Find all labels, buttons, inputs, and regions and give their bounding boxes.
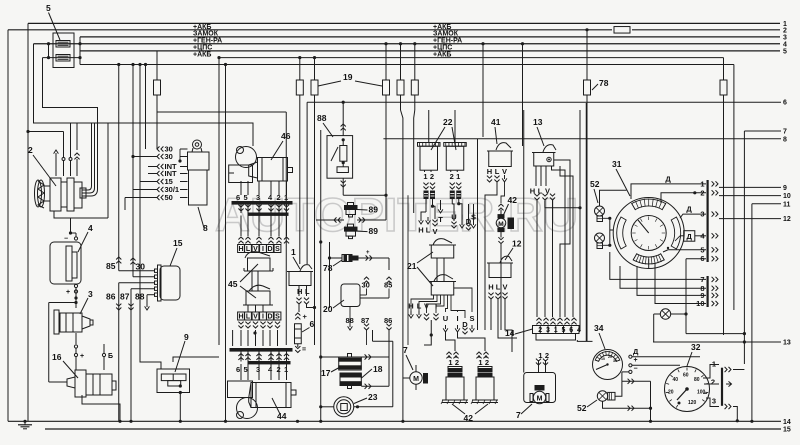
wire generator bundle: [82, 172, 98, 196]
wire battery plus: [74, 288, 77, 308]
wire drop fuse: [399, 42, 402, 80]
svg-text:86: 86: [106, 292, 116, 302]
svg-text:20: 20: [608, 355, 612, 359]
svg-text:80: 80: [694, 377, 700, 383]
svg-text:2: 2: [538, 327, 542, 334]
wire x320.75 upper: [320, 130, 322, 242]
wire x482: [482, 139, 484, 330]
svg-text:M: M: [498, 221, 503, 228]
wire x477: [477, 139, 479, 330]
svg-text:D: D: [267, 314, 272, 321]
motor 46: [229, 147, 293, 183]
svg-text:20: 20: [323, 304, 333, 314]
svg-text:5: 5: [244, 193, 248, 202]
wire relay9 out: [179, 393, 182, 423]
svg-text:6: 6: [236, 365, 240, 374]
label 42: [452, 404, 488, 423]
svg-text:H: H: [238, 246, 243, 253]
svg-text:15: 15: [783, 427, 791, 434]
label 88: [317, 113, 333, 137]
coil 42: [471, 366, 498, 404]
svg-text:1: 1: [456, 172, 460, 181]
svg-text:V: V: [502, 167, 507, 176]
switch 1 pins: [297, 286, 310, 297]
ignition terminal 30: [157, 145, 188, 154]
wire 7a: [403, 365, 416, 390]
wire x320.75: [319, 240, 322, 423]
label 5: [46, 3, 60, 40]
svg-text:1: 1: [448, 358, 452, 367]
wire ign row1 wrap: [178, 149, 181, 163]
svg-text:13: 13: [533, 117, 543, 127]
svg-text:+ЦПС: +ЦПС: [433, 45, 452, 52]
switch 12: [487, 256, 513, 277]
svg-text:M: M: [537, 395, 543, 402]
wire 87 drop: [120, 289, 155, 423]
wire bus ZAMOK line2: [8, 29, 780, 31]
gauge 34 terminals: [629, 347, 639, 374]
label 21: [407, 252, 433, 286]
wire run y57.6: [219, 57, 724, 59]
svg-text:18: 18: [373, 364, 383, 374]
wire relay3 down: [75, 333, 77, 344]
wire x219: [217, 56, 220, 345]
ignition terminal 30: [133, 152, 188, 161]
wire 21b fan: [411, 288, 472, 318]
svg-text:+АКБ: +АКБ: [193, 52, 211, 59]
resistor 18: [340, 373, 361, 389]
svg-text:30: 30: [165, 152, 173, 161]
svg-text:8: 8: [783, 136, 787, 143]
wire 52b loop: [603, 379, 653, 423]
wire bus +AKB line1: [28, 22, 780, 24]
wire switch1 L: [304, 298, 315, 308]
fuse box 5: [53, 33, 74, 68]
svg-text:3: 3: [712, 397, 716, 406]
connector 44 pins: [236, 364, 288, 380]
fuse 78b: [720, 80, 727, 95]
wire 14 to motor 7b: [539, 360, 546, 373]
motor 7b loop: [524, 373, 556, 403]
row1 arrows: [419, 206, 476, 230]
decor: [215, 188, 578, 241]
wire 13 drops: [534, 166, 555, 317]
horn 23: [334, 397, 354, 417]
wire row1 feeds: [421, 200, 474, 223]
connector 14 chevrons: [536, 318, 576, 324]
wire drop fuse: [384, 42, 387, 80]
speedometer 31: [613, 198, 684, 269]
svg-text:Д: Д: [665, 175, 671, 184]
wire x133: [131, 63, 134, 273]
relay 22: [418, 143, 441, 182]
relay 20 pins top: [360, 270, 392, 298]
speedo wires lower: [610, 252, 706, 304]
fuse 19: [383, 80, 390, 95]
wire line7: [744, 129, 787, 136]
wire lighter bottom: [295, 344, 306, 354]
label 14: [505, 328, 533, 338]
svg-text:2: 2: [455, 358, 459, 367]
wire x744: [743, 131, 746, 364]
svg-text:10: 10: [783, 193, 791, 200]
row HLVIDS lower: [238, 312, 281, 321]
speedo connector lower: [696, 275, 718, 308]
label 89a: [358, 205, 379, 215]
lamp 52a bulb: [595, 233, 605, 249]
label 18: [362, 364, 383, 378]
svg-text:2: 2: [783, 27, 787, 34]
wire line11: [752, 201, 791, 208]
wire relay15 86: [118, 282, 120, 284]
wire fuse5 lower: [43, 44, 82, 59]
ignition terminal 15: [140, 177, 188, 186]
wire drop x723 fuse78b: [723, 58, 725, 335]
svg-text:L: L: [246, 314, 251, 321]
svg-text:T: T: [438, 215, 443, 224]
bus labels right: [433, 24, 462, 59]
svg-text:16: 16: [52, 352, 62, 362]
svg-text:2: 2: [485, 358, 489, 367]
svg-text:78: 78: [599, 78, 609, 88]
switch 13: [532, 145, 556, 166]
svg-text:V: V: [253, 314, 258, 321]
battery 4: [50, 236, 81, 297]
svg-text:−: −: [64, 236, 68, 243]
svg-text:4: 4: [783, 41, 787, 48]
label 32: [687, 342, 701, 366]
svg-text:L: L: [495, 167, 500, 176]
svg-text:2: 2: [277, 193, 281, 202]
label 41: [491, 117, 501, 144]
label 78 mid: [323, 260, 342, 273]
switch 13 pins: [530, 187, 550, 196]
svg-text:5: 5: [783, 48, 787, 55]
wire run y64.5: [80, 64, 734, 66]
coil 42 pins: [476, 352, 489, 367]
row1 HLV: [418, 226, 437, 237]
switch 12 pins: [488, 283, 507, 300]
svg-text:60: 60: [683, 373, 689, 379]
connector 14: [533, 326, 581, 341]
label 12: [505, 239, 522, 261]
svg-text:S: S: [275, 246, 280, 253]
wire drop x157: [156, 51, 158, 149]
svg-text:I: I: [262, 314, 264, 321]
relay 22 chevrons: [423, 183, 435, 199]
svg-text:6: 6: [310, 319, 315, 329]
svg-text:120: 120: [688, 400, 697, 406]
speedo connector upper: [700, 179, 718, 263]
wire drop fuse: [298, 56, 301, 80]
svg-text:+: +: [366, 250, 370, 256]
wire drop x522.5: [521, 42, 524, 146]
motor 7b: [530, 386, 549, 404]
svg-text:9: 9: [783, 185, 787, 192]
label 1: [291, 247, 300, 269]
ignition terminal INT: [148, 169, 188, 178]
wire 34 left: [592, 356, 594, 358]
wire 23 circuit: [319, 330, 393, 408]
svg-text:12: 12: [783, 216, 791, 223]
svg-text:14: 14: [783, 419, 791, 426]
row1 TUIDS: [438, 213, 476, 227]
row2 arrows2: [443, 325, 474, 334]
svg-text:44: 44: [277, 411, 287, 421]
wire x314.5: [313, 95, 316, 345]
lighter 6 plus: [295, 312, 307, 321]
label 44: [272, 398, 287, 421]
row HLVIDS upper chevrons: [238, 237, 289, 243]
wire relay22 drops: [426, 199, 460, 213]
wire 45-44 bundle: [241, 330, 278, 346]
svg-text:30: 30: [613, 359, 617, 363]
wire 46-45 bundle: [241, 216, 287, 237]
glow plug 89a: [345, 203, 358, 218]
switch 1: [287, 265, 313, 286]
wire bus +AKB line5: [80, 50, 780, 52]
wire plugs row: [316, 217, 386, 222]
terminal numbers 1-5: [783, 21, 787, 56]
svg-text:13: 13: [783, 340, 791, 347]
fuse on line2: [614, 27, 630, 34]
wire 30 to relay15: [130, 258, 154, 277]
wire line9: [719, 185, 787, 192]
label 31: [612, 159, 630, 196]
wire 34 terminals: [622, 342, 745, 381]
wire 13 collect: [545, 201, 582, 210]
wire bottom border line15: [45, 427, 791, 434]
svg-text:41: 41: [491, 117, 501, 127]
svg-text:30: 30: [362, 281, 370, 290]
svg-text:3: 3: [256, 193, 260, 202]
relay 20 pins bottom: [346, 301, 393, 357]
svg-text:10: 10: [601, 357, 605, 361]
label 46: [271, 131, 291, 160]
switch 41 pins: [487, 167, 507, 182]
svg-text:H: H: [488, 283, 493, 292]
svg-text:21: 21: [407, 261, 417, 271]
fuse 19: [296, 80, 303, 95]
svg-text:23: 23: [368, 392, 378, 402]
label 78: [592, 78, 609, 90]
label 15: [170, 238, 183, 266]
label 4: [78, 223, 93, 252]
svg-text:100: 100: [697, 390, 706, 396]
svg-text:1: 1: [423, 172, 427, 181]
svg-text:Д: Д: [687, 232, 693, 241]
wire run line8 y138.8: [383, 136, 787, 150]
svg-text:+ЦПС: +ЦПС: [193, 45, 212, 52]
resistor 17: [339, 354, 362, 371]
svg-text:5: 5: [244, 365, 248, 374]
svg-text:I: I: [262, 246, 264, 253]
wire x751.9: [750, 204, 753, 423]
label 42 mid: [503, 195, 517, 216]
label 89b: [358, 226, 379, 236]
wire flasher: [654, 312, 746, 342]
svg-text:31: 31: [612, 159, 622, 169]
wire 88 down: [341, 178, 388, 197]
bus labels left: [193, 24, 222, 59]
switch 21a: [429, 239, 456, 258]
svg-text:9: 9: [184, 332, 189, 342]
switch 45a: [244, 252, 273, 271]
wire bottom bus line14: [8, 419, 791, 426]
wire line13: [653, 340, 791, 347]
relay 22 chevrons: [450, 183, 462, 199]
connector 44 bar: [230, 349, 292, 360]
svg-text:+: +: [634, 357, 638, 364]
speedo wires upper: [631, 175, 706, 314]
svg-text:+: +: [66, 289, 70, 296]
wire 86 drop: [116, 283, 121, 422]
label 34: [594, 323, 605, 349]
svg-text:3: 3: [256, 365, 260, 374]
wire line6: [307, 100, 787, 264]
label 52a: [590, 179, 600, 203]
connector 46 bar: [232, 202, 292, 205]
wire drop fuse: [413, 42, 416, 80]
wire left wrap line1: [27, 23, 29, 421]
coil 42: [441, 366, 468, 404]
fuse 19: [397, 80, 404, 95]
wire bus +CPS line4: [34, 43, 781, 45]
glow plug 89b: [345, 224, 358, 239]
motor 44: [228, 381, 297, 419]
lighter 6: [295, 324, 302, 344]
wire 12 drops: [491, 299, 517, 352]
wire x140: [138, 63, 141, 182]
wire lamps52a: [600, 190, 627, 247]
svg-text:12: 12: [512, 239, 522, 249]
svg-text:L: L: [305, 287, 310, 296]
label 6: [302, 319, 315, 332]
svg-text:S: S: [275, 314, 280, 321]
svg-text:U: U: [443, 314, 448, 323]
svg-text:M: M: [413, 376, 419, 383]
svg-text:Б: Б: [108, 353, 113, 360]
svg-text:V: V: [432, 227, 437, 236]
fuse 19: [311, 80, 318, 95]
wire coils to bus: [454, 403, 456, 405]
svg-text:ЗАМОК: ЗАМОК: [193, 31, 219, 38]
svg-text:88: 88: [317, 113, 327, 123]
relay 88: [327, 136, 353, 179]
wire drop x483: [481, 42, 484, 137]
wire x580: [579, 110, 581, 330]
relay 9: [157, 369, 190, 394]
row HLVIDS upper: [238, 245, 281, 254]
label 13: [533, 117, 544, 146]
wire x408: [407, 195, 409, 345]
wire x485: [484, 330, 486, 351]
gauge 34: [593, 350, 623, 380]
label 19: [318, 72, 382, 86]
wire gen feed y131.5: [26, 130, 63, 158]
wire 86 down: [106, 283, 155, 302]
svg-text:22: 22: [443, 117, 453, 127]
wire feed left b: [43, 58, 98, 172]
wire 17 circuit: [319, 354, 389, 389]
svg-text:52: 52: [577, 403, 587, 413]
switch 21b: [429, 275, 456, 295]
svg-text:15: 15: [173, 238, 183, 248]
label 23: [354, 392, 378, 404]
svg-text:2: 2: [28, 145, 33, 155]
svg-text:85: 85: [384, 281, 392, 290]
svg-text:H: H: [297, 287, 302, 296]
label 2: [28, 145, 56, 186]
wire battery top: [71, 233, 77, 237]
wire gen bottom: [54, 211, 72, 235]
svg-text:D: D: [267, 246, 272, 253]
switch 45b: [243, 285, 273, 305]
svg-text:7: 7: [516, 410, 521, 420]
svg-text:42: 42: [508, 195, 518, 205]
wire 88 drop: [135, 292, 155, 311]
wire 32 pins: [703, 364, 744, 422]
svg-text:2: 2: [545, 351, 549, 360]
svg-text:34: 34: [594, 323, 604, 333]
gauge 32 connector: [705, 360, 722, 406]
row2 UIDS: [443, 314, 475, 329]
svg-text:3: 3: [546, 327, 550, 334]
wire 85 to relay15: [106, 63, 155, 271]
fuse x157: [154, 80, 161, 95]
label 22: [431, 117, 456, 150]
lamp 52b: [597, 391, 615, 401]
label 20: [323, 300, 344, 314]
svg-text:78: 78: [323, 263, 333, 273]
svg-text:H: H: [487, 167, 492, 176]
svg-text:11: 11: [783, 201, 791, 208]
wire relay9 top: [173, 357, 219, 362]
svg-text:87: 87: [361, 316, 369, 325]
ignition terminal 30/1: [133, 185, 188, 194]
svg-text:32: 32: [691, 342, 701, 352]
connector 46 pins: [236, 181, 288, 202]
coil 42 pins: [446, 352, 459, 367]
wire 44 pin6 up: [232, 330, 234, 346]
wire x108: [54, 123, 108, 218]
svg-text:7: 7: [403, 345, 408, 355]
label 7b: [516, 404, 532, 420]
svg-text:ЗАМОК: ЗАМОК: [433, 31, 459, 38]
svg-text:6: 6: [569, 327, 573, 334]
starter 16: [67, 357, 116, 397]
wire x125: [124, 198, 126, 211]
svg-text:4: 4: [88, 223, 93, 233]
fuse 78a: [584, 80, 591, 95]
label 16: [52, 352, 78, 378]
wire line12: [719, 216, 791, 223]
wire drop x587 fuse78: [585, 28, 588, 341]
wire x403: [401, 95, 405, 423]
svg-text:1: 1: [554, 327, 558, 334]
wire battery left: [49, 301, 78, 382]
generator terminals: [54, 150, 80, 166]
wire switch1 H: [296, 298, 301, 312]
wire relay9 in: [140, 182, 161, 370]
svg-text:1: 1: [291, 247, 296, 257]
wire 14 out right: [577, 340, 592, 341]
label 3: [80, 289, 93, 314]
connector 46 bar2: [241, 205, 288, 216]
svg-text:87: 87: [120, 292, 130, 302]
svg-text:H: H: [238, 314, 243, 321]
wire line10: [719, 193, 791, 200]
